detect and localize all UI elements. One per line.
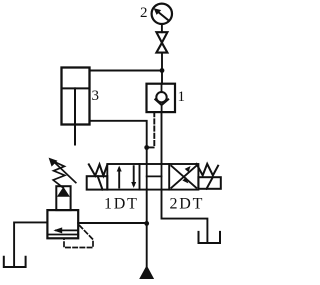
- wire cylinder bottom port to A-line corner: [90, 121, 147, 148]
- svg-text:3: 3: [92, 88, 100, 104]
- node bottom junction: [144, 221, 149, 226]
- cylinder 3: [62, 68, 90, 145]
- node A junction: [144, 145, 149, 150]
- pilot line dashed from check valve to A-line: [147, 112, 154, 147]
- wire cylinder top port to top junction: [90, 70, 163, 72]
- wire shutoff valve down to top junction: [161, 53, 163, 71]
- centre square flow lines: [147, 164, 162, 190]
- pressure gauge 2: [152, 4, 172, 24]
- wire top junction to check valve: [161, 71, 163, 84]
- wire gauge to shutoff valve: [161, 24, 163, 32]
- svg-text:1: 1: [178, 89, 186, 105]
- wire bottom junction to pump: [146, 223, 148, 266]
- relief valve pilot drain dashed: [64, 226, 93, 248]
- tank right: [199, 232, 221, 243]
- solenoid 1DT (left): [87, 176, 108, 189]
- wire T port to right tank: [162, 190, 208, 242]
- pilot-operated check valve 1: [147, 84, 176, 112]
- wire check valve out (B-line) down to valve: [161, 112, 163, 164]
- wire relief valve inlet from bottom junction: [78, 222, 147, 224]
- wire relief valve outlet to left tank: [14, 222, 47, 265]
- directional valve 4/3 body: [107, 164, 198, 190]
- right square crossed arrows: [171, 166, 196, 188]
- relief valve pilot poppet box: [56, 186, 70, 210]
- pump source triangle: [139, 265, 154, 279]
- spring left: [89, 164, 108, 175]
- svg-text:2: 2: [140, 5, 148, 21]
- svg-text:2DT: 2DT: [170, 196, 205, 213]
- svg-text:1DT: 1DT: [104, 196, 139, 213]
- tank left: [4, 257, 26, 267]
- node top junction: [160, 68, 165, 73]
- shutoff valve: [156, 32, 167, 52]
- relief valve body: [47, 210, 78, 238]
- wire A junction down to valve (A port): [146, 148, 148, 165]
- wire P port down to bottom junction: [146, 190, 148, 224]
- spring right: [197, 164, 219, 176]
- relief valve adjustable spring: [49, 158, 76, 188]
- solenoid 2DT (right): [198, 177, 220, 189]
- left square arrows: [117, 166, 137, 188]
